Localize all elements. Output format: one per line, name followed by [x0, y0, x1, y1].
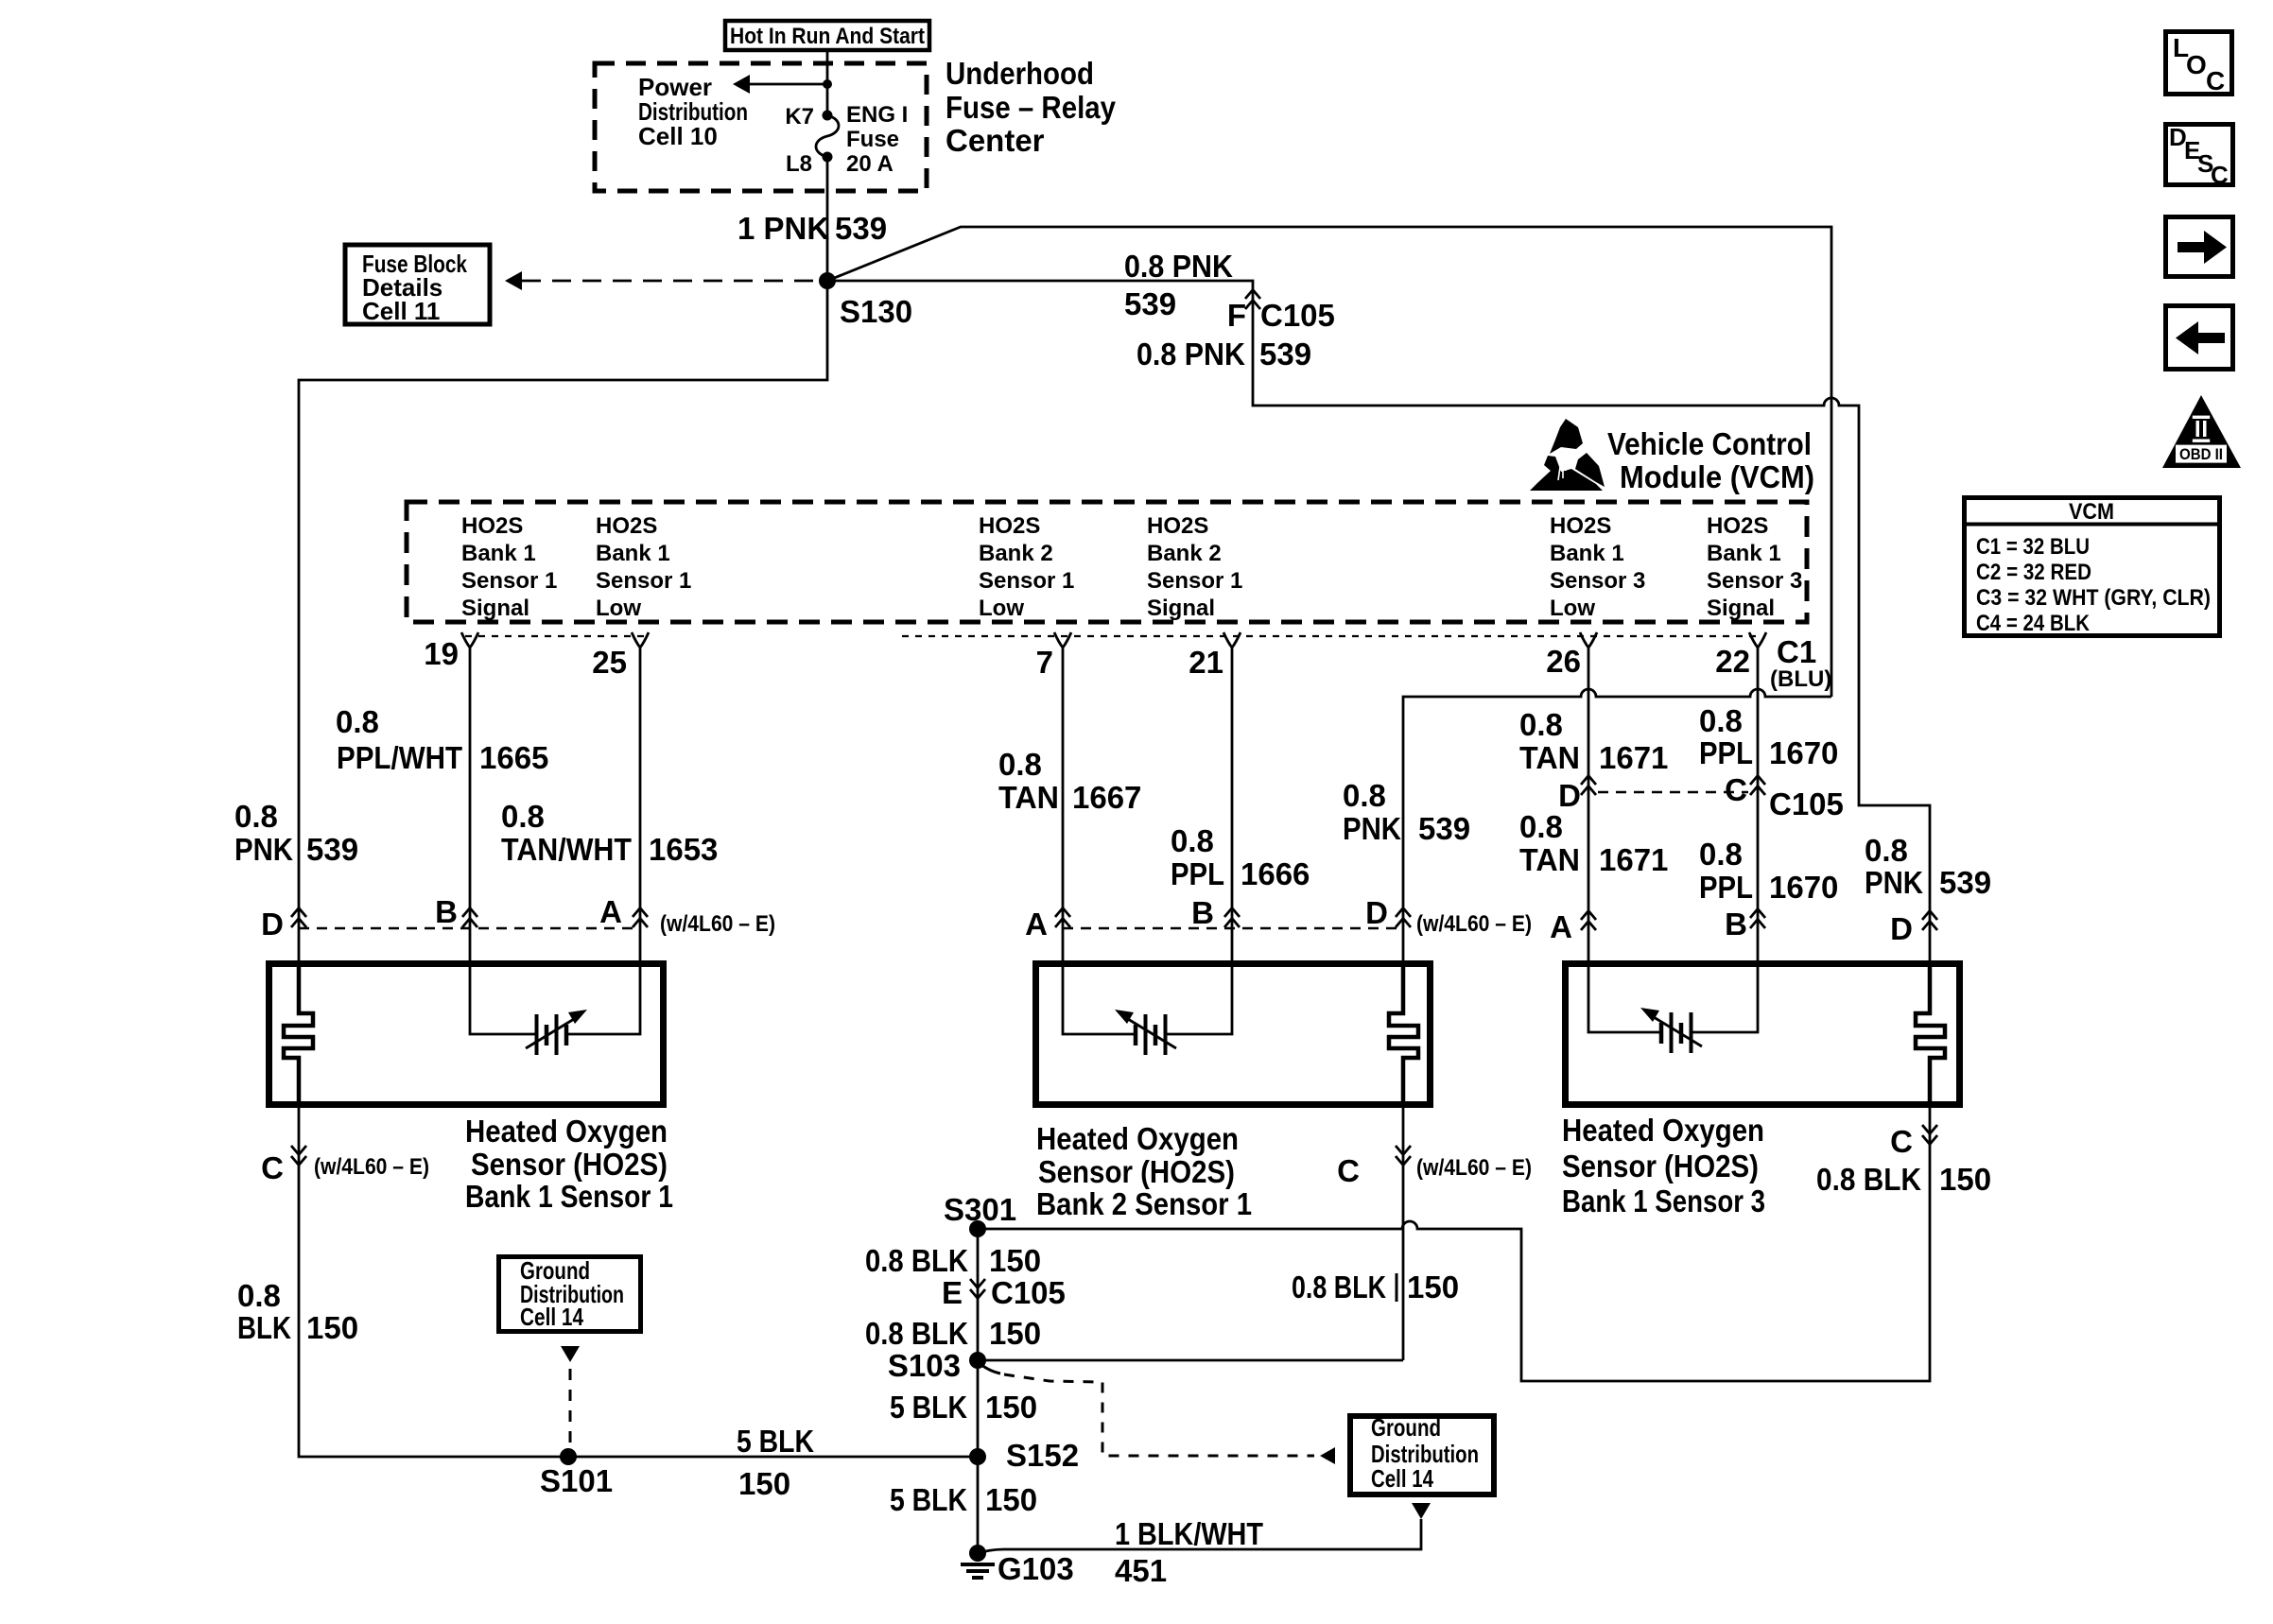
svg-text:HO2S: HO2S	[1707, 513, 1768, 539]
svg-text:PNK: PNK	[234, 832, 293, 867]
svg-text:HO2S: HO2S	[596, 513, 657, 539]
svg-text:(w/4L60 – E): (w/4L60 – E)	[660, 911, 775, 937]
svg-text:5 BLK: 5 BLK	[890, 1390, 967, 1425]
svg-text:0.8 PNK: 0.8 PNK	[1124, 249, 1233, 284]
svg-text:Fuse: Fuse	[846, 127, 899, 152]
svg-text:1653: 1653	[649, 832, 718, 867]
svg-text:A: A	[1025, 907, 1048, 942]
svg-text:Sensor 1: Sensor 1	[979, 568, 1074, 594]
svg-text:A: A	[599, 894, 622, 929]
svg-text:Heated Oxygen: Heated Oxygen	[1036, 1121, 1239, 1156]
svg-text:E: E	[942, 1275, 963, 1310]
svg-text:Bank 1: Bank 1	[1550, 541, 1624, 566]
svg-text:1 BLK/WHT: 1 BLK/WHT	[1115, 1516, 1263, 1551]
svg-text:VCM: VCM	[2069, 499, 2114, 525]
svg-text:1671: 1671	[1599, 740, 1668, 775]
svg-text:TAN: TAN	[998, 780, 1059, 815]
svg-text:L8: L8	[786, 151, 812, 177]
svg-text:HO2S: HO2S	[461, 513, 523, 539]
svg-text:0.8: 0.8	[237, 1278, 281, 1313]
svg-text:539: 539	[835, 211, 887, 246]
svg-text:C: C	[1337, 1153, 1360, 1188]
svg-text:Hot In Run And Start: Hot In Run And Start	[730, 24, 925, 49]
svg-text:25: 25	[592, 645, 627, 680]
svg-text:C: C	[261, 1150, 284, 1185]
svg-text:22: 22	[1715, 644, 1750, 679]
svg-text:5 BLK: 5 BLK	[890, 1482, 967, 1517]
svg-text:Center: Center	[946, 123, 1045, 158]
svg-text:(w/4L60 – E): (w/4L60 – E)	[314, 1154, 429, 1180]
svg-text:C: C	[2206, 66, 2225, 95]
svg-text:BLK: BLK	[237, 1310, 291, 1345]
svg-text:0.8: 0.8	[336, 704, 379, 739]
svg-text:Bank 1 Sensor 3: Bank 1 Sensor 3	[1562, 1183, 1765, 1218]
svg-text:451: 451	[1115, 1553, 1167, 1588]
svg-text:0.8: 0.8	[1171, 823, 1214, 858]
svg-text:B: B	[435, 894, 458, 929]
svg-text:Sensor (HO2S): Sensor (HO2S)	[471, 1147, 668, 1182]
svg-text:Sensor 3: Sensor 3	[1550, 568, 1645, 594]
svg-text:Bank 2: Bank 2	[1147, 541, 1222, 566]
svg-text:Bank 1 Sensor 1: Bank 1 Sensor 1	[465, 1179, 673, 1214]
svg-text:0.8: 0.8	[1865, 833, 1908, 868]
svg-text:1666: 1666	[1241, 856, 1310, 891]
svg-text:Low: Low	[1550, 596, 1595, 621]
svg-text:150: 150	[306, 1310, 358, 1345]
svg-text:Cell 10: Cell 10	[638, 122, 718, 150]
svg-text:150: 150	[989, 1243, 1041, 1278]
svg-text:539: 539	[1418, 811, 1470, 846]
svg-text:S101: S101	[540, 1463, 613, 1498]
svg-text:0.8 BLK: 0.8 BLK	[865, 1316, 968, 1351]
svg-text:Signal: Signal	[1707, 596, 1775, 621]
svg-text:Bank 2 Sensor 1: Bank 2 Sensor 1	[1036, 1186, 1252, 1221]
svg-text:Ground: Ground	[1371, 1413, 1441, 1442]
svg-text:TAN: TAN	[1519, 842, 1580, 877]
svg-text:D: D	[1558, 778, 1581, 813]
svg-text:D: D	[261, 907, 284, 942]
svg-text:S152: S152	[1006, 1438, 1079, 1473]
svg-text:1670: 1670	[1769, 735, 1838, 770]
svg-text:TAN: TAN	[1519, 740, 1580, 775]
svg-text:HO2S: HO2S	[1147, 513, 1208, 539]
svg-text:Bank 1: Bank 1	[596, 541, 670, 566]
svg-text:Bank 1: Bank 1	[1707, 541, 1781, 566]
svg-text:C: C	[1725, 772, 1747, 807]
svg-text:C1: C1	[1777, 634, 1816, 669]
svg-text:0.8: 0.8	[1519, 809, 1563, 844]
svg-text:0.8 BLK: 0.8 BLK	[865, 1243, 968, 1278]
svg-text:PPL: PPL	[1171, 856, 1224, 891]
svg-text:ENG I: ENG I	[846, 102, 908, 128]
svg-text:S130: S130	[840, 294, 912, 329]
svg-text:HO2S: HO2S	[1550, 513, 1611, 539]
svg-text:(BLU): (BLU)	[1770, 666, 1831, 692]
svg-text:539: 539	[306, 832, 358, 867]
svg-text:Signal: Signal	[461, 596, 529, 621]
svg-text:5 BLK: 5 BLK	[737, 1424, 814, 1459]
svg-text:1671: 1671	[1599, 842, 1668, 877]
svg-text:C105: C105	[1260, 298, 1335, 333]
svg-text:C2 = 32 RED: C2 = 32 RED	[1976, 560, 2091, 585]
svg-text:7: 7	[1036, 645, 1053, 680]
svg-text:OBD II: OBD II	[2179, 445, 2223, 463]
svg-text:C1 = 32 BLU: C1 = 32 BLU	[1976, 534, 2090, 560]
svg-text:D: D	[1365, 895, 1388, 930]
svg-text:150: 150	[1407, 1270, 1459, 1304]
svg-text:G103: G103	[998, 1551, 1074, 1586]
svg-text:Heated Oxygen: Heated Oxygen	[1562, 1113, 1764, 1148]
svg-text:(w/4L60 – E): (w/4L60 – E)	[1416, 1155, 1532, 1181]
svg-text:Cell 14: Cell 14	[1371, 1464, 1433, 1493]
svg-text:PPL: PPL	[1699, 735, 1753, 770]
svg-text:C: C	[2211, 161, 2229, 189]
svg-text:HO2S: HO2S	[979, 513, 1040, 539]
svg-text:19: 19	[424, 636, 459, 671]
svg-text:PNK: PNK	[1343, 811, 1401, 846]
svg-text:26: 26	[1546, 644, 1581, 679]
svg-text:539: 539	[1124, 286, 1176, 321]
svg-text:Vehicle Control: Vehicle Control	[1607, 426, 1812, 461]
svg-text:Signal: Signal	[1147, 596, 1215, 621]
svg-text:Bank 2: Bank 2	[979, 541, 1053, 566]
svg-text:0.8: 0.8	[501, 799, 545, 834]
svg-text:Low: Low	[596, 596, 641, 621]
svg-text:PNK: PNK	[1865, 865, 1923, 900]
svg-text:Sensor 1: Sensor 1	[1147, 568, 1242, 594]
svg-text:0.8 PNK: 0.8 PNK	[1136, 337, 1245, 371]
svg-text:Heated Oxygen: Heated Oxygen	[465, 1114, 668, 1149]
svg-text:Cell 11: Cell 11	[362, 297, 440, 325]
svg-text:PPL: PPL	[1699, 870, 1753, 905]
svg-text:Cell 14: Cell 14	[520, 1303, 583, 1331]
svg-text:S103: S103	[888, 1348, 961, 1383]
svg-text:Sensor (HO2S): Sensor (HO2S)	[1562, 1149, 1759, 1183]
svg-text:150: 150	[985, 1482, 1037, 1517]
svg-text:0.8: 0.8	[1699, 703, 1743, 738]
svg-text:C3 = 32 WHT (GRY, CLR): C3 = 32 WHT (GRY, CLR)	[1976, 585, 2211, 611]
svg-text:539: 539	[1259, 337, 1311, 371]
svg-text:PPL/WHT: PPL/WHT	[337, 740, 462, 775]
svg-text:0.8: 0.8	[1699, 837, 1743, 872]
svg-text:S301: S301	[944, 1192, 1016, 1227]
svg-text:C105: C105	[1769, 786, 1844, 821]
svg-text:TAN/WHT: TAN/WHT	[501, 832, 632, 867]
svg-text:150: 150	[738, 1466, 790, 1501]
svg-text:O: O	[2186, 50, 2207, 79]
svg-text:Fuse – Relay: Fuse – Relay	[946, 90, 1117, 125]
svg-text:150: 150	[1939, 1162, 1991, 1197]
svg-text:F: F	[1227, 298, 1246, 333]
svg-text:Sensor (HO2S): Sensor (HO2S)	[1038, 1154, 1235, 1189]
svg-text:B: B	[1725, 907, 1747, 942]
svg-text:1667: 1667	[1072, 780, 1141, 815]
svg-text:Module (VCM): Module (VCM)	[1620, 459, 1814, 494]
svg-text:21: 21	[1189, 645, 1223, 680]
svg-text:539: 539	[1939, 865, 1991, 900]
svg-text:Low: Low	[979, 596, 1024, 621]
svg-text:0.8: 0.8	[1519, 707, 1563, 742]
svg-text:C: C	[1890, 1124, 1913, 1159]
svg-text:Bank 1: Bank 1	[461, 541, 536, 566]
svg-text:D: D	[1890, 911, 1913, 946]
svg-text:0.8: 0.8	[1343, 778, 1386, 813]
svg-text:1670: 1670	[1769, 870, 1838, 905]
svg-text:A: A	[1550, 909, 1572, 944]
svg-text:Sensor 1: Sensor 1	[596, 568, 691, 594]
svg-text:1665: 1665	[479, 740, 548, 775]
svg-text:C105: C105	[991, 1275, 1066, 1310]
svg-text:Underhood: Underhood	[946, 56, 1094, 91]
svg-text:150: 150	[989, 1316, 1041, 1351]
svg-text:0.8: 0.8	[234, 799, 278, 834]
svg-text:0.8: 0.8	[998, 747, 1042, 782]
svg-text:Sensor 3: Sensor 3	[1707, 568, 1802, 594]
svg-text:C4 = 24 BLK: C4 = 24 BLK	[1976, 611, 2091, 636]
svg-text:20 A: 20 A	[846, 151, 894, 177]
svg-text:(w/4L60 – E): (w/4L60 – E)	[1416, 911, 1532, 937]
svg-text:150: 150	[985, 1390, 1037, 1425]
svg-text:B: B	[1191, 895, 1214, 930]
svg-text:0.8 BLK: 0.8 BLK	[1816, 1162, 1921, 1197]
svg-text:0.8 BLK: 0.8 BLK	[1292, 1270, 1386, 1304]
svg-text:K7: K7	[785, 104, 814, 130]
svg-text:1 PNK: 1 PNK	[737, 211, 829, 246]
svg-text:Sensor 1: Sensor 1	[461, 568, 557, 594]
